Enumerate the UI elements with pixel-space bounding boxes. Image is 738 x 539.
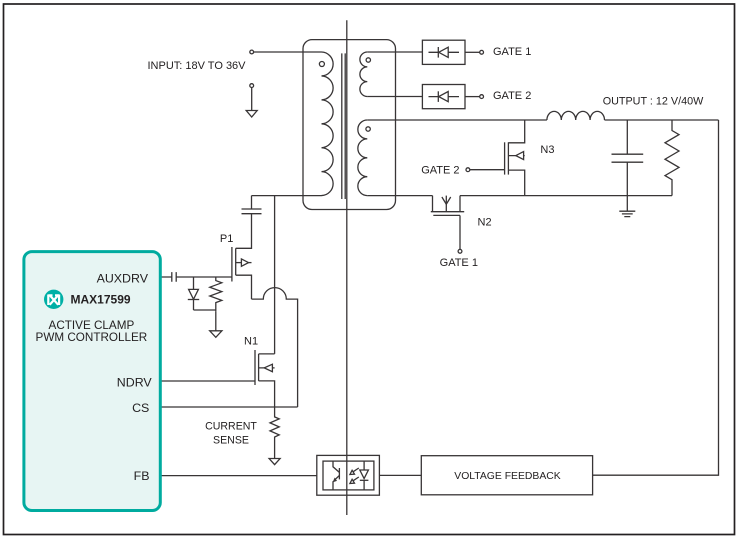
ground arrow (input return) [251,88,253,111]
terminal GATE 1 (top) [480,50,484,54]
wire S2 bottom [367,195,432,197]
svg-text:CS: CS [132,401,149,415]
wire rectifier 1 to terminal [465,51,480,53]
transformer primary winding [322,52,334,196]
capacitor C-clamp [242,209,262,214]
ground (earth) output [626,196,628,212]
optocoupler phototransistor [333,461,339,472]
svg-text:GATE 1: GATE 1 [440,257,478,269]
secondary winding S1 [360,52,367,96]
logo Maxim [44,290,63,309]
wire N3 gate [470,169,505,171]
wire N1 drain line [274,196,276,354]
svg-text:INPUT: 18V TO 36V: INPUT: 18V TO 36V [147,60,246,72]
svg-text:MAX17599: MAX17599 [71,293,131,307]
optocoupler U2 body [317,455,380,495]
svg-text:CURRENT: CURRENT [205,421,257,433]
wire S1 bottom to rectifier 2 [367,96,422,98]
optocoupler light arrows [353,468,359,472]
svg-text:ACTIVE CLAMP: ACTIVE CLAMP [49,319,135,332]
svg-text:GATE 2: GATE 2 [421,165,459,177]
wire output right rail [593,120,719,475]
mosfet N1 [254,350,256,385]
isolation boundary line [346,20,348,515]
svg-text:GATE 2: GATE 2 [493,90,531,102]
transformer T1 body [303,40,396,210]
wire opto to feedback block [379,474,421,476]
input terminal node [250,50,254,54]
svg-text:PWM CONTROLLER: PWM CONTROLLER [36,331,148,344]
wire N2 gate [459,215,461,249]
wire input to transformer primary [254,51,322,53]
inductor L1 [547,111,605,120]
ground arrow (sense) [269,459,280,465]
S2 polarity dot [366,127,370,131]
wire S2 top output rail [367,119,718,121]
wire P1 drain with hop over N1 drain line [252,288,298,407]
svg-text:N2: N2 [478,216,492,228]
capacitor C-out [626,120,628,154]
block VOLTAGE FEEDBACK [421,456,592,495]
mosfet N3 [508,120,524,143]
rectifier block D-G1 [422,40,465,64]
wire AUXDRV [160,276,232,278]
svg-text:N3: N3 [540,144,554,156]
terminal GATE 1 (N2 gate) [458,249,462,253]
svg-text:OUTPUT : 12 V/40W: OUTPUT : 12 V/40W [603,96,704,108]
transformer core lines [342,53,345,199]
svg-text:GATE 1: GATE 1 [493,46,531,58]
terminal GATE 2 (N3 gate) [466,168,470,172]
svg-text:NDRV: NDRV [117,375,153,389]
resistor R-aux [210,277,222,311]
svg-text:N1: N1 [244,336,258,348]
svg-text:VOLTAGE FEEDBACK: VOLTAGE FEEDBACK [454,471,561,482]
IC U1 MAX17599 body [24,252,160,511]
svg-text:FB: FB [134,469,150,483]
wire diode/resistor bottom [194,309,216,311]
wire S1 top to rectifier 1 [367,51,422,53]
wire primary bottom lead [252,195,322,197]
svg-text:AUXDRV: AUXDRV [97,272,149,286]
resistor R-load [665,120,679,196]
wire clamp top [251,196,253,209]
wire FB [160,475,317,477]
svg-text:P1: P1 [220,233,233,245]
ground arrow (aux network) [215,311,217,330]
primary polarity dot [319,62,324,67]
wire rectifier 2 to terminal [465,96,480,98]
rectifier block D-G2 [422,85,465,109]
mosfet N2 (horizontal) [432,196,434,212]
wire NDRV [160,380,255,382]
wire CS [160,406,298,408]
terminal GATE 2 (top) [480,95,484,99]
diode D-aux [193,277,195,289]
svg-text:SENSE: SENSE [213,435,249,447]
secondary winding S2 [358,120,367,196]
capacitor C-aux (series) [172,272,176,282]
optocoupler LED [363,461,365,470]
wire N2 to output bottom [460,195,672,197]
S1 polarity dot [366,58,370,62]
resistor R-sense [270,407,279,459]
mosfet P1 [236,214,252,249]
input return terminal [250,84,254,88]
